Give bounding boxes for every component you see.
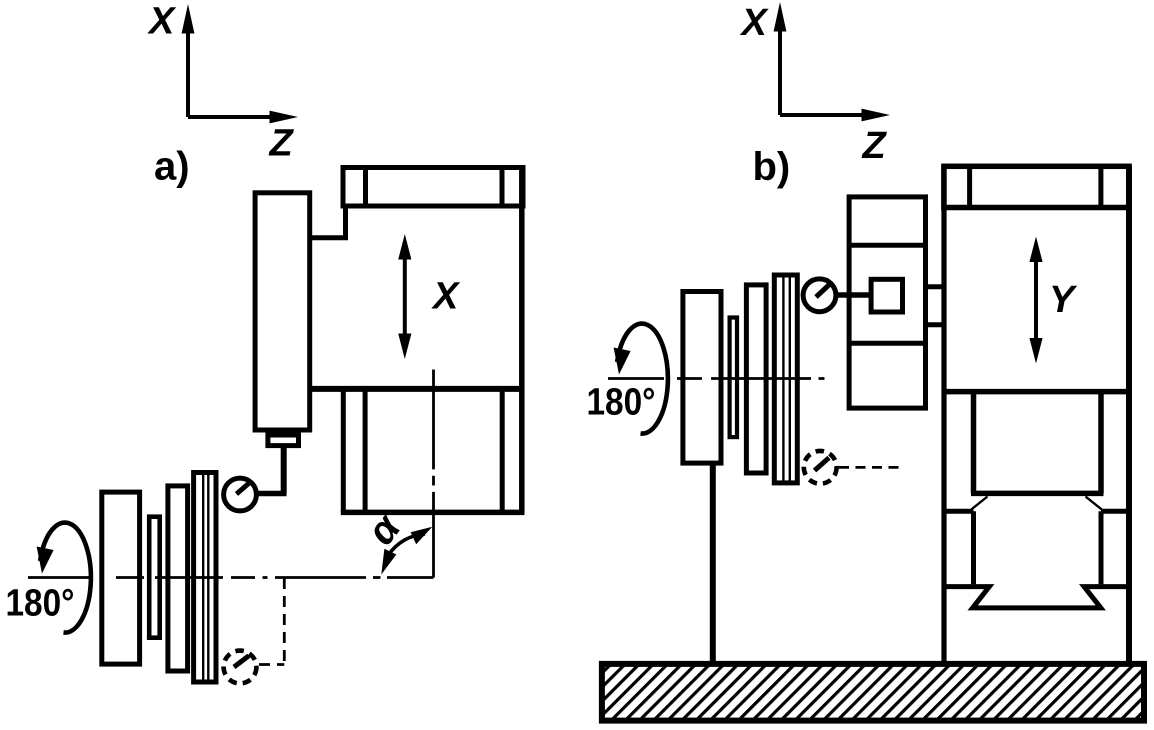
axis Z arrowhead a bbox=[270, 111, 299, 124]
indicator stem a bbox=[281, 448, 287, 494]
alpha arrowhead lower bbox=[381, 549, 396, 575]
strip divider left b bbox=[944, 509, 974, 514]
cap inner line left b bbox=[967, 166, 972, 208]
guideway chamfer left b bbox=[972, 497, 988, 510]
dial indicator lower a (phantom) bbox=[224, 651, 257, 684]
axis Z arrowhead b bbox=[862, 109, 891, 122]
ground hatched bar bbox=[602, 664, 1144, 721]
slide foot rect a bbox=[268, 435, 299, 446]
svg-text:180°: 180° bbox=[6, 582, 75, 624]
X feed arrowhead top bbox=[398, 234, 411, 260]
block step a bbox=[310, 206, 346, 238]
cap inner line left a bbox=[363, 168, 368, 207]
phantom link horizontal b bbox=[839, 466, 905, 469]
dial indicator lower b (phantom) bbox=[804, 451, 837, 484]
rotation arc a bbox=[40, 523, 91, 633]
Y feed arrowhead bottom bbox=[1029, 338, 1042, 364]
vertical slide a bbox=[255, 193, 310, 430]
svg-text:b): b) bbox=[753, 145, 791, 189]
lower block outer-left a bbox=[341, 389, 346, 513]
faceplate inner line 1 a bbox=[202, 473, 204, 682]
lower block inner-left a bbox=[363, 389, 368, 513]
upper window bottom b bbox=[971, 491, 1104, 497]
svg-text:X: X bbox=[431, 276, 461, 318]
axis X arrowhead b bbox=[774, 2, 787, 32]
svg-text:180°: 180° bbox=[587, 381, 656, 423]
spindle post b bbox=[710, 466, 716, 662]
dial indicator upper a bbox=[224, 478, 257, 511]
spindle centerline b bbox=[608, 377, 825, 380]
svg-text:X: X bbox=[147, 1, 177, 43]
dial needle lower a bbox=[234, 656, 249, 667]
spindle disc2 a bbox=[168, 486, 188, 671]
head divider lower b bbox=[849, 341, 925, 346]
faceplate inner line 2 a bbox=[207, 473, 209, 682]
column right edge b bbox=[1126, 166, 1132, 661]
axis arrows b bbox=[780, 31, 864, 115]
Y block bottom line b bbox=[944, 389, 1129, 395]
svg-text:Z: Z bbox=[269, 123, 295, 165]
strip divider right b bbox=[1101, 509, 1129, 514]
phantom link vertical a bbox=[283, 578, 286, 665]
dial needle upper b bbox=[816, 284, 831, 298]
dial needle lower b bbox=[815, 458, 830, 471]
head-column tab upper b bbox=[926, 284, 945, 289]
column cap a bbox=[343, 168, 523, 207]
spindle disc1 b bbox=[683, 292, 721, 464]
cap inner line right b bbox=[1098, 166, 1103, 208]
guideway chamfer right b bbox=[1086, 497, 1102, 510]
middle window left wall b bbox=[971, 511, 976, 584]
rotation arrowhead b bbox=[614, 348, 631, 375]
column vertical centerline a bbox=[432, 370, 435, 578]
indicator stem b bbox=[837, 292, 871, 298]
head divider upper b bbox=[849, 243, 925, 248]
cap inner line right a bbox=[500, 168, 505, 207]
middle window right wall b bbox=[1099, 511, 1104, 584]
dial indicator upper b bbox=[803, 279, 836, 312]
head-column tab lower b bbox=[926, 322, 945, 327]
upper window right wall b bbox=[1098, 392, 1104, 494]
faceplate b bbox=[774, 275, 797, 483]
spindle spacer b bbox=[730, 318, 737, 438]
svg-text:a): a) bbox=[154, 145, 190, 189]
lower block inner-right a bbox=[500, 389, 505, 513]
spindle head block b bbox=[849, 197, 925, 408]
alpha angle arc bbox=[389, 534, 426, 555]
indicator arm a bbox=[258, 491, 287, 497]
phantom link horizontal a bbox=[259, 663, 284, 666]
column left edge b bbox=[941, 166, 946, 661]
rotation arrowhead a bbox=[37, 547, 54, 574]
faceplate inner line 2 b bbox=[789, 276, 791, 482]
Y feed arrow shaft bbox=[1034, 259, 1038, 341]
column right edge a bbox=[519, 168, 525, 513]
table clamp zigzag b bbox=[944, 587, 1129, 608]
column cap b bbox=[944, 166, 1129, 207]
upper window left wall b bbox=[971, 392, 977, 494]
axis arrows a bbox=[188, 33, 272, 117]
svg-text:Y: Y bbox=[1049, 279, 1078, 321]
head square boss b bbox=[871, 279, 902, 312]
block bottom line a bbox=[310, 386, 522, 392]
lower block bottom a bbox=[341, 510, 525, 516]
Y feed arrowhead top bbox=[1029, 237, 1042, 263]
spindle spacer a bbox=[149, 517, 160, 638]
faceplate inner line 1 b bbox=[782, 276, 784, 482]
svg-text:Z: Z bbox=[862, 125, 888, 167]
dial needle upper a bbox=[237, 482, 251, 494]
svg-text:X: X bbox=[740, 2, 770, 44]
X feed arrowhead bottom bbox=[398, 334, 411, 360]
alpha arrowhead upper bbox=[411, 527, 433, 544]
axis X arrowhead a bbox=[182, 4, 195, 34]
X feed arrow shaft bbox=[403, 257, 407, 336]
rotation arc b bbox=[617, 324, 668, 434]
spindle disc1 a bbox=[102, 492, 140, 664]
spindle centerline a bbox=[28, 576, 434, 579]
spindle disc2 b bbox=[746, 285, 766, 473]
faceplate a bbox=[194, 473, 216, 683]
